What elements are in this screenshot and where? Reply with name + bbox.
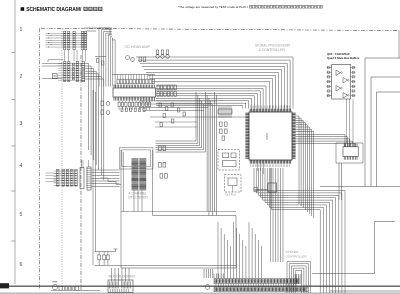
motor driver IC651 box	[108, 280, 133, 292]
wires QFP bottom straight down to controller nest	[270, 168, 272, 262]
right edge wire bracket 1	[365, 58, 400, 187]
bus wires: verticals descending left of QFP	[156, 92, 197, 141]
op-amp/processor QFP IC601 body	[249, 112, 292, 160]
driver side components A	[159, 146, 162, 151]
board boundary dash-dot top	[41, 28, 400, 30]
right edge wire bracket 2	[371, 77, 400, 187]
bottom right horizontal wire	[330, 290, 400, 292]
connector CN202 strip	[80, 168, 84, 189]
IC101 bottom pins	[114, 97, 154, 101]
transistor Q103	[156, 55, 160, 59]
boundary dotted vertical	[61, 29, 63, 291]
stubs CN101 to CN102	[65, 50, 86, 62]
controller nested wire loops	[287, 262, 311, 294]
long horizontal wire mid-right	[320, 186, 400, 188]
QX3 left pins	[327, 67, 332, 69]
driver output wires down	[134, 190, 142, 212]
transistor Q101	[126, 56, 130, 60]
svg-text:BTL DRIVER: BTL DRIVER	[129, 196, 149, 200]
QX3 buffer gate 1	[336, 70, 341, 76]
IC101 top pins	[114, 85, 154, 88]
QX3 buffer gate 2	[343, 78, 348, 84]
mid horizontal wires into QFP left	[140, 101, 245, 117]
reset IC below QFP	[268, 183, 277, 192]
boundary dash-dot vertical 2	[80, 55, 82, 290]
bus wires: nested corners upper (to QFP top)	[136, 57, 293, 109]
note kanji run	[250, 5, 252, 8]
IC602 top pins	[344, 144, 357, 147]
QX3 right pins	[351, 67, 356, 69]
feed wires above resistor network	[118, 75, 153, 80]
svg-text:3: 3	[20, 121, 23, 127]
connector CN103 strip	[82, 62, 85, 82]
bank interconnect wires CN102	[58, 63, 85, 80]
bus wires: band into QFP left region	[156, 86, 266, 109]
second component row below IC101	[121, 108, 123, 112]
bottom-left black block	[0, 283, 9, 288]
signal name labels	[46, 173, 54, 181]
pins between connector rows	[216, 284, 296, 288]
extra mid band wires	[155, 122, 197, 127]
svg-text:SCHEMATIC DIAGRAM/: SCHEMATIC DIAGRAM/	[26, 7, 82, 13]
vertical feeds below QFP	[258, 164, 264, 174]
svg-text:6: 6	[20, 262, 23, 268]
resistor R653	[107, 255, 110, 260]
svg-text:2: 2	[20, 74, 23, 80]
transistor Q105	[166, 55, 170, 59]
bank interconnect wires CN101	[46, 34, 87, 48]
QX3 buffer gate 3	[336, 86, 341, 92]
transistor Q651	[205, 285, 210, 290]
transistor Q110	[106, 102, 110, 106]
right edge stub top	[398, 31, 400, 58]
resistor R652	[103, 255, 106, 260]
wires above CN202	[82, 160, 89, 168]
resistor network above IC101	[117, 79, 119, 84]
svg-text:4: 4	[20, 163, 23, 169]
svg-text:1: 1	[20, 27, 23, 33]
right edge wire elbow lower	[312, 222, 395, 274]
bottom-left parts row	[59, 287, 62, 291]
parts cluster above CN651	[204, 269, 213, 278]
resistor R651	[98, 255, 101, 260]
RC cluster right of IC101	[157, 85, 159, 90]
bottom-left wire	[51, 289, 100, 291]
IC601 bottom pins	[250, 160, 291, 164]
small parts below CN101 bundle	[97, 59, 99, 63]
head amp IC IC101 body	[113, 88, 156, 97]
IC602 surrounding wires	[336, 143, 363, 163]
title kanji glyph blocks	[84, 7, 88, 11]
svg-text:*The voltage are measured by T: *The voltage are measured by TEST mode a…	[178, 5, 248, 9]
large loop rectangle	[153, 216, 237, 269]
EEPROM IC602 body	[343, 147, 358, 157]
controller inner components	[295, 274, 302, 284]
right edge wire bracket 3	[377, 92, 400, 187]
svg-text:QX3 : 74HC125AF: QX3 : 74HC125AF	[327, 52, 350, 56]
BTL driver wire loops	[120, 148, 154, 170]
bottom dark rule	[0, 285, 400, 287]
IC601 left pins	[245, 113, 249, 158]
wire above CN102	[48, 60, 64, 62]
svg-text:IC601: IC601	[265, 133, 269, 140]
svg-text:5: 5	[20, 212, 23, 218]
stepped wire near CN201	[100, 178, 121, 185]
left margin ruler line	[14, 0, 16, 284]
IC602 bottom pins	[344, 156, 357, 159]
wires descending into CN651	[217, 222, 219, 279]
scattered parts below-right of IC101	[159, 103, 161, 107]
bank interconnect wires CN201	[54, 171, 78, 185]
connector row CN652	[214, 287, 308, 292]
jack J101 box	[53, 74, 58, 79]
IC601 top pins	[250, 109, 291, 113]
IC601 top pin numbers	[251, 106, 290, 108]
test point mark	[114, 249, 118, 252]
svg-text:Quad 3 State Bus Buffers: Quad 3 State Bus Buffers	[327, 56, 360, 60]
long wire pair lower left	[95, 265, 237, 268]
transistor Q102	[131, 58, 135, 62]
capacitor cluster left of QFP	[220, 122, 223, 126]
BTL driver IC201 pin column B	[139, 159, 146, 190]
wires left of CN102	[42, 64, 62, 79]
wires left into CN201	[54, 174, 57, 182]
trimmer dashed box	[225, 175, 242, 193]
svg-text:CD HEAD AMP: CD HEAD AMP	[125, 45, 151, 49]
power transistor Q652	[52, 284, 57, 289]
wires QFP right to EEPROM	[296, 135, 345, 147]
IC601 right pins	[292, 113, 296, 158]
connector CN101 bank (head connectors)	[64, 31, 66, 49]
svg-text:& CONTROLLER: & CONTROLLER	[259, 48, 286, 52]
wires into motor driver IC	[112, 268, 130, 282]
QX3 wires down to IC602	[347, 99, 354, 144]
svg-text:(CLV PLL): (CLV PLL)	[225, 194, 236, 197]
components below IC101	[118, 102, 120, 106]
vertical wire x121	[121, 150, 123, 268]
vertical wire x93	[93, 90, 96, 265]
bus from QFP bottom wrapping right and down	[254, 168, 345, 293]
connector CN203 strip	[87, 167, 91, 190]
ruler tick marks	[11, 53, 15, 242]
wires CN203 to driver	[92, 169, 120, 171]
IC601 bottom pin numbers	[251, 164, 290, 166]
connector CN201 bank	[56, 169, 59, 186]
resistor column inside CN102 bank	[72, 63, 74, 65]
decoupling cluster above-left of QFP	[219, 106, 231, 118]
wire fan right of QFP	[296, 116, 299, 204]
bottom gray scan band	[0, 292, 400, 294]
junction dots CN101 wires	[48, 33, 49, 34]
board boundary dash-dot left vertical	[39, 28, 41, 290]
wire fan from CN103 down-right	[85, 63, 88, 150]
driver side components B	[159, 163, 162, 168]
title block square	[21, 7, 25, 11]
connector CN102 bank	[64, 62, 66, 82]
transistor Q111	[106, 111, 110, 115]
BTL driver IC201 pin column A	[132, 159, 139, 190]
driver side components C	[160, 174, 163, 179]
bias parts left of Q110	[101, 101, 104, 105]
resistors above Q103-Q105	[156, 50, 158, 54]
RC cluster mid	[139, 57, 142, 62]
transistor Q104	[161, 55, 165, 59]
vertical wire bundle to head amp	[99, 28, 112, 87]
svg-text:CONTROLLER: CONTROLLER	[286, 254, 308, 258]
QX3 buffer gate 4	[343, 93, 348, 99]
wire top from CN101	[85, 28, 111, 36]
buffer IC QX3 body	[332, 65, 351, 100]
crystal circuit dashed box X601	[218, 150, 240, 171]
connector row CN651	[214, 279, 299, 284]
wire feeding resistors	[95, 252, 117, 266]
vertical wire x152	[152, 150, 154, 216]
